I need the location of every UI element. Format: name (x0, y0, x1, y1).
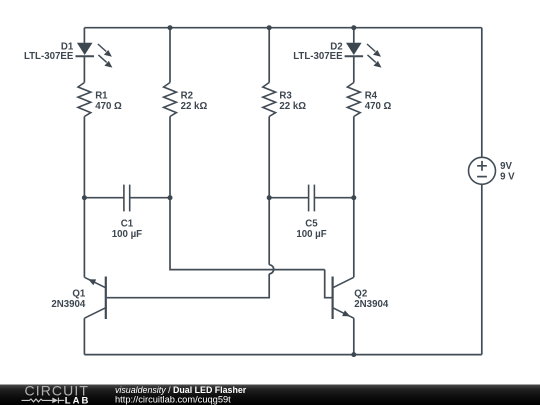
svg-text:470 Ω: 470 Ω (95, 101, 122, 112)
node C5 left junction (267, 195, 272, 200)
capacitor C5 (269, 185, 354, 212)
svg-text:Q1: Q1 (72, 288, 86, 299)
svg-text:http://circuitlab.com/cuqg59t: http://circuitlab.com/cuqg59t (115, 395, 231, 405)
wire Q2 emitter to bottom rail (353, 318, 355, 354)
footer logo schematic squiggle (22, 398, 65, 404)
wire top rail (84, 27, 481, 29)
footer bar (0, 385, 540, 405)
svg-text:22 kΩ: 22 kΩ (279, 101, 306, 112)
wire Q1 collector to bottom rail (83, 318, 85, 354)
svg-text:2N3904: 2N3904 (51, 299, 86, 310)
wire Q2 base jog (325, 270, 332, 298)
svg-text:2N3904: 2N3904 (354, 299, 389, 310)
node top rail R3 junction (267, 25, 272, 30)
wire V1 minus to bottom rail (481, 185, 483, 355)
wire hop to Q1 base (107, 274, 269, 298)
svg-text:C5: C5 (305, 219, 318, 230)
wire D1 cathode to R1 top (83, 56, 85, 82)
wire top rail to D2 anode (353, 28, 355, 43)
wire top rail to D1 anode (83, 28, 85, 43)
node top rail R2 junction (168, 25, 173, 30)
wire top rail to R3 top (268, 28, 270, 83)
svg-text:9V: 9V (500, 161, 512, 172)
LED D2 (345, 43, 382, 68)
node C1 left junction (82, 195, 87, 200)
svg-text:LTL-307EE: LTL-307EE (24, 51, 74, 62)
wire R4 bottom to C5 right node (353, 117, 355, 198)
svg-text:9 V: 9 V (500, 172, 515, 183)
resistor R2 (164, 83, 177, 117)
node C5 right junction (351, 195, 356, 200)
resistor R1 (78, 83, 91, 117)
svg-text:R4: R4 (365, 90, 378, 101)
svg-text:LTL-307EE: LTL-307EE (293, 51, 343, 62)
wire R1 bottom to C1 left node (83, 117, 85, 198)
voltage source V1 9V (469, 157, 496, 184)
svg-text:visualdensity / Dual LED Flash: visualdensity / Dual LED Flasher (115, 385, 247, 395)
wire D2 cathode to R4 top (353, 56, 355, 82)
svg-text:470 Ω: 470 Ω (365, 101, 392, 112)
node top rail D2 junction (351, 25, 356, 30)
transistor Q1 (84, 277, 105, 320)
wire hop over crossing (269, 265, 274, 274)
svg-text:22 kΩ: 22 kΩ (181, 101, 208, 112)
wire top rail to V1 plus (481, 28, 483, 157)
resistor R4 (347, 83, 360, 117)
wire C1 right node down and right to Q2 base jog (170, 198, 325, 270)
wire top rail to R2 top (169, 28, 171, 83)
wire C1 left node to Q1 emitter (83, 198, 85, 278)
transistor Q2 (333, 277, 354, 320)
resistor R3 (263, 83, 276, 117)
wire bottom rail (84, 354, 481, 356)
capacitor C1 (84, 185, 170, 212)
wire R3 bottom to C5 left node (268, 117, 270, 198)
svg-text:R3: R3 (279, 90, 292, 101)
wire R2 bottom to C1 right node (169, 117, 171, 198)
svg-text:100 µF: 100 µF (112, 229, 142, 240)
svg-text:Q2: Q2 (354, 288, 367, 299)
svg-text:C1: C1 (121, 219, 134, 230)
wire C5 left node down to hop (268, 198, 270, 265)
svg-text:R2: R2 (181, 90, 193, 101)
svg-text:R1: R1 (95, 90, 108, 101)
LED D1 (76, 43, 113, 68)
node bottom rail Q2 emitter junction (351, 352, 356, 357)
svg-text:LAB: LAB (65, 395, 91, 405)
svg-text:100 µF: 100 µF (296, 229, 326, 240)
wire C5 right node to Q2 collector (353, 198, 355, 278)
node C1 right junction (168, 195, 173, 200)
